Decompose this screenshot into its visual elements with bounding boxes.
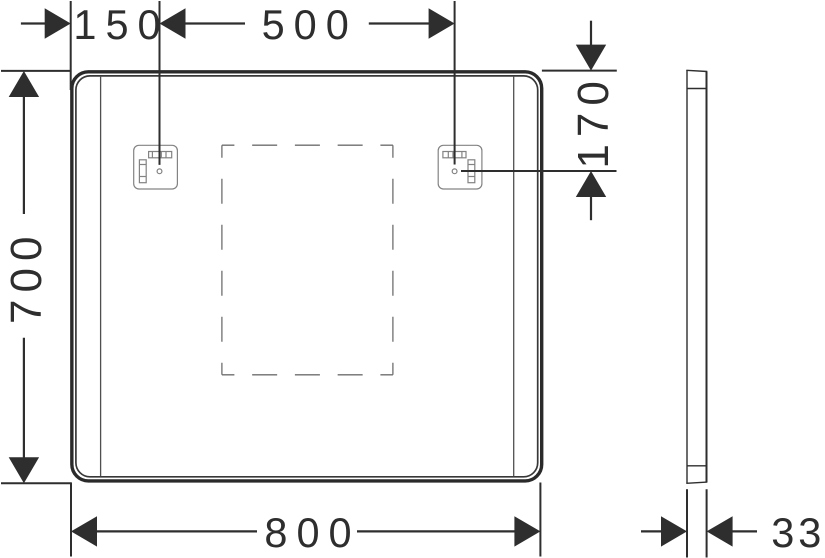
right inner vertical line [513, 77, 515, 477]
arrow 700 bottom (points down) [9, 457, 39, 483]
ext line side view left [686, 489, 688, 557]
dim 700 line upper [23, 96, 25, 214]
ext line right bracket [454, 1, 456, 165]
arrow 700 top (points up) [9, 71, 39, 97]
ext line bracket center (right) [461, 170, 617, 172]
arrow 170 top (points down) [576, 45, 606, 71]
ext line mirror left bottom [70, 483, 72, 557]
arrow 33 right (points left) [707, 516, 733, 546]
ext line mirror top (left) [1, 70, 72, 72]
svg-text:150: 150 [73, 1, 169, 48]
dashed heating pad area: top [222, 144, 393, 146]
side view top edge [686, 70, 707, 71]
dim 500 right tail [369, 22, 429, 24]
svg-text:700: 700 [2, 230, 51, 324]
arrow 500 right (points right) [429, 8, 455, 38]
mirror inner frame line [76, 76, 538, 477]
dashed area: left [221, 145, 223, 375]
dim 33 right tail [732, 530, 757, 532]
svg-text:800: 800 [264, 509, 360, 556]
dim 170 line above [590, 21, 592, 45]
dim 170 line below [590, 197, 592, 221]
side view left edge [686, 70, 688, 483]
arrow 150 left (points right) [45, 8, 71, 38]
arrow 800 left (points left) [71, 516, 97, 546]
side view bottom line [687, 465, 707, 467]
ext line mirror right bottom [539, 483, 541, 557]
side view right edge (mirror face) [706, 71, 708, 482]
mirror outer frame (front view) [72, 72, 542, 481]
svg-text:500: 500 [262, 1, 358, 48]
left mounting bracket icon [134, 145, 178, 189]
dim 500 left tail [185, 22, 245, 24]
right mounting bracket icon [438, 145, 482, 189]
arrow 33 left (points right) [661, 516, 687, 546]
side view [686, 70, 707, 483]
left inner vertical line [100, 77, 102, 477]
dim 150 left tail [21, 22, 45, 24]
svg-text:33: 33 [771, 509, 825, 556]
arrow 170 bottom (points up) [576, 171, 606, 197]
side view bottom edge [686, 482, 707, 483]
dim 800 left tail [97, 530, 258, 532]
dim 33 left tail [641, 530, 662, 532]
side view top chamfer line [687, 88, 707, 90]
ext line mirror top (right) [542, 70, 617, 72]
arrow 500 left (points left) [160, 8, 186, 38]
ext line left bracket [159, 1, 161, 165]
dashed area: right [392, 145, 394, 375]
ext line left mirror edge top [70, 1, 72, 90]
dashed area: bottom [222, 374, 393, 376]
dim 700 line lower [23, 338, 25, 458]
svg-text:170: 170 [569, 74, 618, 168]
dim 800 right tail [357, 530, 515, 532]
arrow 800 right (points right) [514, 516, 540, 546]
ext line mirror bottom (left) [1, 482, 72, 484]
ext line side view right [706, 489, 708, 557]
